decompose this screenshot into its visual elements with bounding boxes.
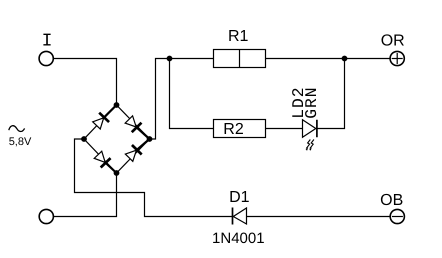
svg-text:1N4001: 1N4001 bbox=[212, 230, 265, 247]
svg-text:R2: R2 bbox=[223, 121, 244, 138]
svg-text:OR: OR bbox=[381, 33, 405, 50]
svg-text:D1: D1 bbox=[229, 189, 250, 206]
svg-text:5,8V: 5,8V bbox=[9, 136, 32, 148]
svg-text:GRN: GRN bbox=[302, 86, 321, 118]
svg-text:I: I bbox=[42, 32, 53, 52]
svg-text:OB: OB bbox=[380, 192, 403, 209]
svg-text:R1: R1 bbox=[228, 28, 249, 45]
